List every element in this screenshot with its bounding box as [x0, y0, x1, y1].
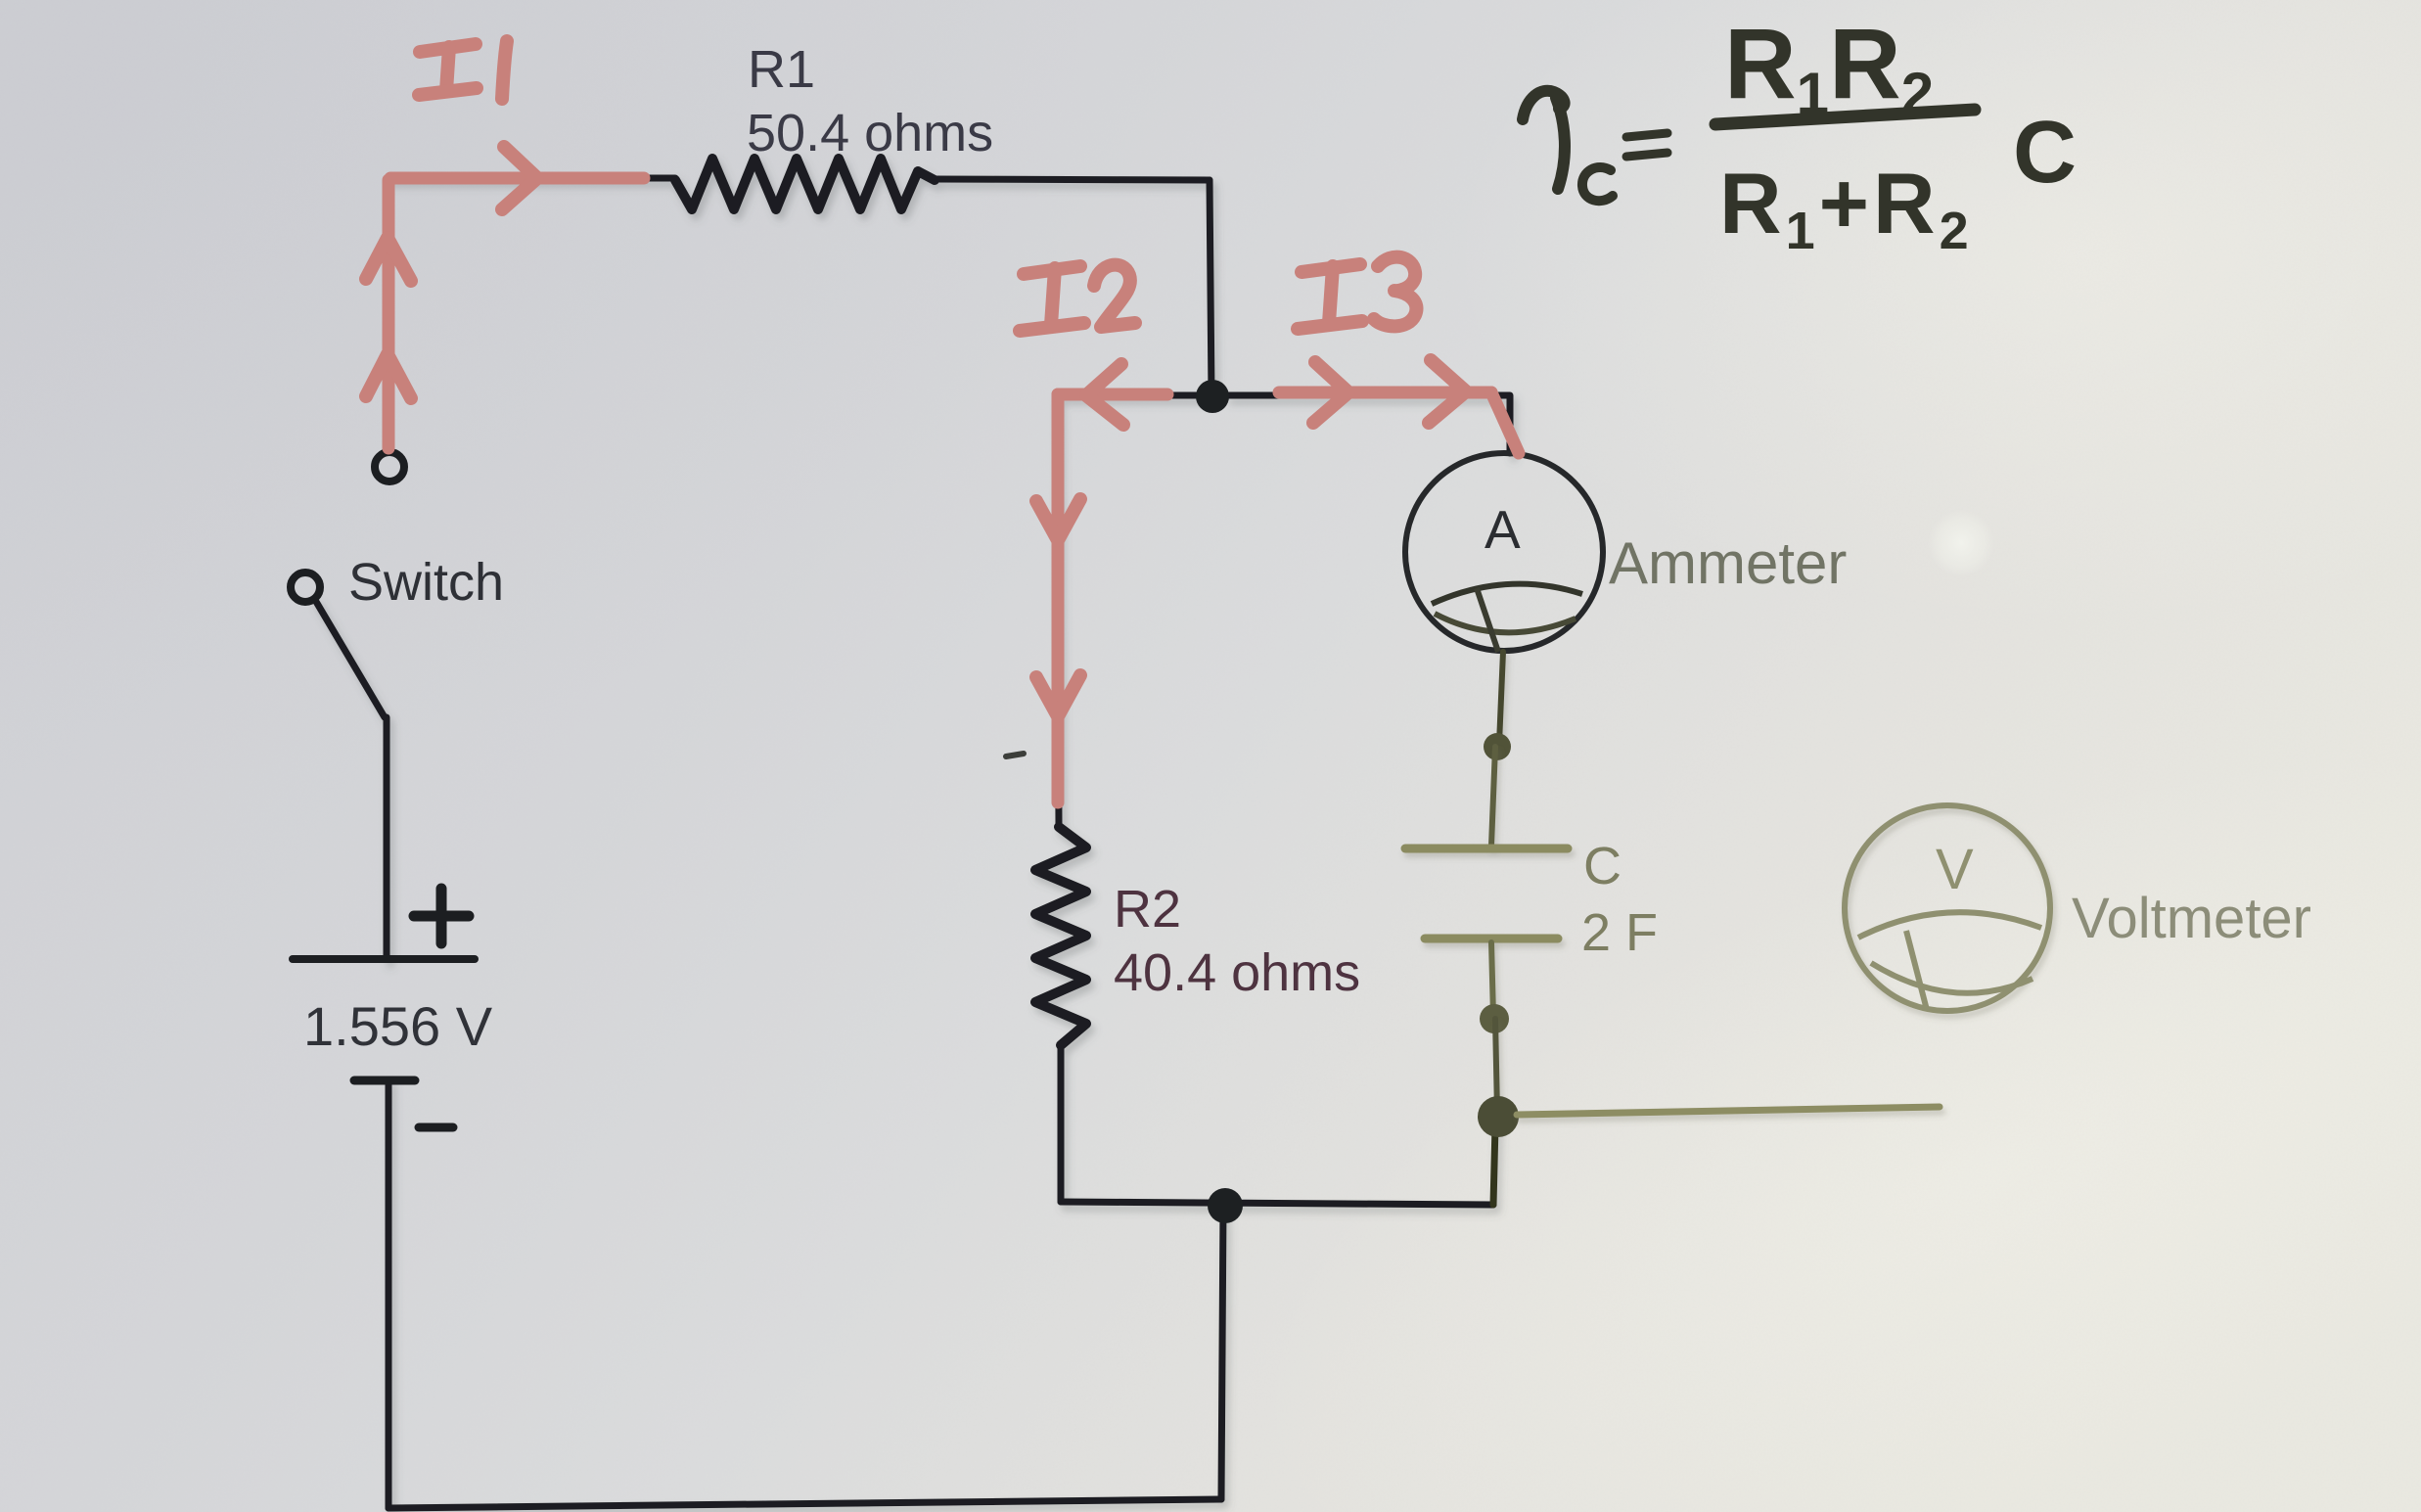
wire switch blade bottom to battery positive	[384, 717, 390, 959]
junction dot below ammeter	[1484, 733, 1511, 760]
red current line I2 vertical	[1052, 394, 1065, 802]
wire down to capacitor	[1491, 747, 1495, 846]
svg-text:40.4 ohms: 40.4 ohms	[1114, 943, 1360, 1002]
resistor R1 label	[748, 40, 815, 99]
red current line I2 horizontal	[1058, 389, 1167, 401]
ammeter U1 circle	[1405, 453, 1603, 651]
switch label	[348, 553, 504, 612]
voltmeter letter V	[1936, 838, 1974, 901]
switch blade	[315, 600, 385, 717]
node B junction dot	[1208, 1188, 1243, 1223]
formula numerator R1R2	[1724, 8, 1934, 126]
wire battery negative down to bottom rail	[386, 1080, 392, 1508]
red chevron I3 first	[1313, 362, 1348, 423]
ammeter gauge lower arc	[1435, 614, 1576, 632]
capacitor C top plate	[1405, 845, 1568, 853]
switch contact circle upper	[375, 452, 404, 481]
svg-text:C: C	[2013, 104, 2077, 202]
svg-text:Switch: Switch	[348, 553, 504, 612]
red current line I3 horizontal	[1279, 387, 1491, 399]
wire top-right corner down to node A	[1210, 180, 1211, 395]
resistor R1	[675, 159, 935, 209]
capacitor value label 2 F	[1581, 903, 1658, 962]
red chevron I1 vertical lower	[366, 354, 411, 398]
red label I1	[419, 41, 507, 99]
formula fraction bar	[1715, 110, 1975, 124]
battery B1 negative plate	[354, 1077, 415, 1085]
red arrowhead I2 pointing left	[1086, 364, 1123, 425]
ammeter needle	[1477, 588, 1498, 652]
red label I2	[1020, 265, 1135, 331]
wire ammeter bottom lead	[1499, 652, 1503, 744]
wire down to R2	[1057, 395, 1059, 827]
battery B1 positive plate	[293, 955, 475, 963]
formula equals sign	[1626, 133, 1667, 157]
junction dot below capacitor	[1480, 1004, 1509, 1033]
red label I3	[1298, 257, 1417, 329]
wire node B down to bottom rail	[1221, 1206, 1223, 1499]
wire R1 to top-right corner	[935, 179, 1210, 180]
resistor R1 value label	[747, 104, 993, 162]
capacitor C bottom plate	[1425, 935, 1558, 943]
resistor R2	[1035, 827, 1086, 1045]
bottom rail wire	[388, 1499, 1221, 1508]
formula tau subscript c	[1582, 167, 1613, 201]
battery plus sign	[414, 889, 469, 943]
resistor R2 value label	[1114, 943, 1360, 1002]
wire down to voltmeter tap	[1495, 1019, 1497, 1112]
red chevron I1 vertical upper	[366, 238, 411, 281]
capacitor label C	[1583, 837, 1622, 895]
battery value label 1.556 V	[303, 995, 493, 1057]
svg-text:2 F: 2 F	[1581, 903, 1658, 962]
voltmeter label	[2072, 887, 2311, 950]
svg-text:Voltmeter: Voltmeter	[2072, 887, 2311, 950]
stray pen mark near R2	[1006, 754, 1024, 756]
formula capacitance C	[2013, 104, 2077, 202]
switch contact circle lower	[291, 573, 320, 602]
svg-text:C: C	[1583, 837, 1622, 895]
red current line I3 diagonal into ammeter	[1491, 392, 1519, 453]
svg-text:A: A	[1485, 499, 1521, 560]
red chevron I2 vertical lower	[1036, 675, 1080, 716]
voltmeter tap junction dot	[1478, 1096, 1519, 1137]
voltmeter needle	[1906, 931, 1927, 1010]
svg-text:50.4 ohms: 50.4 ohms	[747, 104, 993, 162]
svg-text:R1+R2: R1+R2	[1719, 155, 1973, 260]
svg-text:R1: R1	[748, 40, 815, 99]
wire node A to left corner of R2 branch	[1057, 392, 1211, 399]
formula tau symbol	[1523, 91, 1565, 189]
wire right riser to capacitor branch	[1493, 1125, 1495, 1205]
svg-text:1.556 V: 1.556 V	[303, 995, 493, 1057]
wire R2 bottom to corner	[1058, 1045, 1065, 1202]
voltmeter lead wire	[1517, 1107, 1940, 1115]
node A junction dot	[1196, 380, 1229, 413]
red chevron I3 second	[1429, 360, 1466, 423]
svg-text:Ammeter: Ammeter	[1609, 530, 1847, 596]
wire bottom of parallel section	[1061, 1202, 1493, 1205]
red current line I1 horizontal	[390, 172, 644, 185]
wire node A to ammeter corner	[1228, 395, 1510, 453]
ammeter letter A	[1485, 499, 1521, 560]
formula denominator R1+R2	[1719, 155, 1973, 260]
voltmeter gauge upper arc	[1858, 912, 2041, 938]
red current line I1 vertical	[383, 180, 395, 448]
wire capacitor bottom lead	[1491, 942, 1493, 1016]
svg-text:R2: R2	[1114, 880, 1181, 939]
resistor R2 label	[1114, 880, 1181, 939]
voltmeter gauge lower arc	[1871, 963, 2033, 993]
red arrowhead I1 horizontal	[502, 147, 537, 209]
red chevron I2 vertical upper	[1036, 499, 1080, 540]
voltmeter U2 circle	[1845, 805, 2050, 1011]
svg-text:V: V	[1936, 838, 1974, 901]
ammeter gauge upper arc	[1432, 584, 1582, 604]
battery minus sign	[419, 1123, 453, 1132]
wire top from corner to R1	[388, 175, 675, 182]
ammeter label	[1609, 530, 1847, 596]
